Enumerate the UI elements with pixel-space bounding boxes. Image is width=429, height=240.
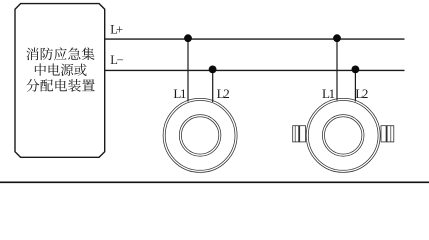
luminaire E2 inner double circle — [322, 115, 364, 157]
svg-text:L−: L− — [110, 53, 123, 67]
box label line: 中电源或 — [35, 63, 87, 75]
box label line: 消防应急集 — [26, 47, 94, 60]
wire E1 L2 drop — [212, 70, 214, 102]
svg-text:L2: L2 — [355, 86, 368, 101]
wire L- bus — [105, 69, 405, 71]
wire E1 L1 drop — [187, 39, 189, 101]
bottom border line — [0, 181, 429, 183]
luminaire E2 right mounting tab — [381, 126, 394, 142]
svg-text:L1: L1 — [173, 86, 186, 101]
wire L+ bus — [105, 38, 405, 40]
svg-text:L1: L1 — [322, 86, 335, 101]
luminaire E2 outer double circle — [306, 98, 380, 172]
svg-text:L2: L2 — [217, 86, 230, 101]
junction dot E1 L- — [209, 66, 217, 74]
luminaire E1 outer double circle — [163, 98, 237, 172]
luminaire E2 left mounting tab — [293, 126, 306, 142]
power supply box U1 (fire emergency centralized power supply) — [15, 4, 105, 158]
junction dot E1 L+ — [184, 34, 192, 42]
svg-text:L+: L+ — [110, 23, 123, 37]
junction dot E2 L+ — [333, 34, 341, 42]
wire E2 L1 drop — [336, 39, 338, 100]
luminaire E1 inner double circle — [179, 115, 221, 157]
wire E2 L2 drop — [354, 70, 356, 101]
box label line: 分配电装置 — [26, 79, 94, 92]
junction dot E2 L- — [352, 66, 360, 74]
